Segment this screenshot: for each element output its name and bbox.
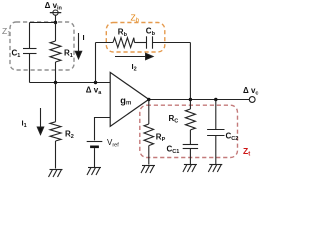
wire Vref to op-amp lower input xyxy=(95,118,111,141)
capacitor CC1 xyxy=(183,145,198,165)
node va junction (Zb tap) xyxy=(94,81,97,84)
resistor RC xyxy=(185,100,195,145)
wire output rail vc xyxy=(149,99,249,101)
wire feedback down to output rail xyxy=(189,43,191,100)
voltage source Vref xyxy=(87,142,103,168)
output terminal vc xyxy=(249,97,255,103)
impedance box Zt (dashed red) xyxy=(140,105,238,157)
resistor R1 xyxy=(50,23,61,83)
impedance box Z1 (dashed) xyxy=(10,22,74,70)
wire Rb to Cb xyxy=(135,42,147,44)
op-amp U1 (gm cell) xyxy=(110,72,149,126)
node RC branch xyxy=(189,98,192,101)
wire Zb tap up xyxy=(95,43,97,83)
wire node A to C1 top xyxy=(30,22,56,24)
wire bottom rail va xyxy=(30,82,111,84)
ground (below R2) xyxy=(49,170,63,178)
current arrow I2 xyxy=(115,53,153,59)
node output (apex) xyxy=(147,98,150,101)
wire Cb to output corner xyxy=(153,42,191,44)
svg-text:I: I xyxy=(83,33,85,42)
capacitor C1 xyxy=(23,23,37,83)
resistor R2 xyxy=(50,83,61,169)
resistor Rb xyxy=(113,38,135,48)
current arrow I xyxy=(75,33,81,59)
ground (below CC2) xyxy=(208,165,222,173)
ground (below CC1) xyxy=(183,165,197,173)
impedance box Zb (dashed orange) xyxy=(106,23,165,53)
wire terminal to node A xyxy=(55,15,57,22)
current arrow I1 xyxy=(37,108,43,135)
ground (below Vref) xyxy=(87,168,101,176)
node va junction (R2 top) xyxy=(54,81,57,84)
node A (input top) xyxy=(54,21,57,24)
ground (below RP) xyxy=(141,166,155,174)
input terminal vin xyxy=(50,10,62,15)
capacitor Cb xyxy=(147,36,153,48)
resistor RP xyxy=(144,100,154,165)
node CC2 branch xyxy=(214,98,217,101)
capacitor CC2 xyxy=(207,100,224,165)
wire tap to Rb xyxy=(96,42,114,44)
